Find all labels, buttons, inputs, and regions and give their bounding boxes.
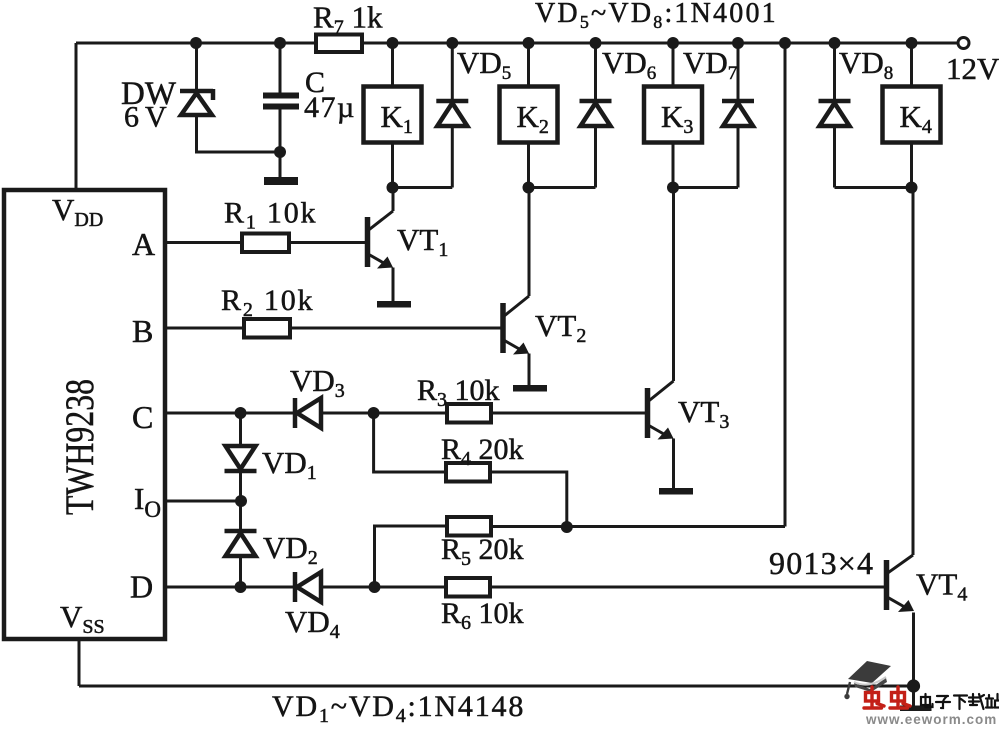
ground VT3: [659, 488, 693, 495]
wire R4 left to C line: [374, 413, 446, 472]
wire K2 junction to VD6: [529, 186, 596, 189]
wire K1 top: [391, 43, 394, 87]
transistor VT3: [648, 381, 674, 440]
node K2-VD6-VT2 junction: [523, 182, 535, 194]
ground VT1: [377, 301, 411, 308]
wire VSS down: [78, 639, 81, 686]
node rail-C junction: [274, 37, 286, 49]
node rail-VD8 junction: [829, 37, 841, 49]
resistor R3: [447, 404, 491, 423]
diode VD3: [295, 398, 321, 428]
wire pin B to R2: [165, 327, 244, 330]
wire bottom rail: [79, 685, 914, 688]
svg-text:R4 20k: R4 20k: [441, 433, 524, 470]
wire VD3 to R3: [321, 412, 447, 415]
wire VT4 emitter stub: [912, 686, 915, 706]
node R4-R5 junction: [561, 521, 573, 533]
resistor R2: [244, 319, 290, 338]
relay K1: [364, 87, 422, 143]
svg-text:D: D: [130, 569, 153, 605]
wire VD7 bottom: [737, 126, 740, 188]
wire VD8 top: [833, 43, 836, 101]
svg-text:R2 10k: R2 10k: [221, 284, 314, 321]
transistor VT4: [887, 555, 915, 612]
diode VD6: [580, 101, 612, 126]
wire K2 bottom: [527, 143, 530, 188]
node K4-VD8-VT4 junction: [906, 182, 918, 194]
capacitor C 47u: [263, 96, 299, 107]
wire VD8 bottom: [833, 126, 836, 188]
wire VD1 to IO: [239, 471, 242, 501]
wire K1 junction to VD5: [393, 186, 453, 189]
node C-R4 junction: [368, 407, 380, 419]
wire VT4 collector: [912, 188, 915, 556]
wire IO down to VD2: [239, 501, 242, 531]
node rail-K3 junction: [667, 37, 679, 49]
wire R4 right down to R5 line: [490, 472, 567, 527]
ground below C: [264, 177, 298, 185]
wire top supply rail left segment: [76, 42, 317, 45]
watermark site name glyphs: [921, 694, 933, 707]
wire VD6 bottom: [594, 126, 597, 188]
wire R5 left to D line: [375, 526, 448, 587]
resistor R4: [446, 463, 490, 482]
diode VD4: [295, 572, 321, 602]
relay K3: [644, 87, 702, 143]
diode VD1: [225, 446, 257, 471]
wire R3 to VT3 base: [491, 412, 646, 415]
svg-text:9013×4: 9013×4: [769, 545, 874, 581]
wire VT2 collector: [528, 188, 531, 297]
svg-text:R1 10k: R1 10k: [224, 197, 317, 234]
wire pin D to VD4: [165, 586, 295, 589]
12V input terminal: [958, 38, 969, 49]
svg-text:A: A: [132, 226, 155, 262]
wire VD5 top: [451, 43, 454, 101]
node K3-VD7-VT3 junction: [667, 182, 679, 194]
resistor R7: [316, 35, 362, 53]
relay K2: [500, 87, 558, 143]
wire C junction down to VD1: [239, 413, 242, 447]
transistor VT2: [503, 296, 529, 355]
resistor R5: [447, 517, 491, 536]
svg-text:47µ: 47µ: [304, 91, 356, 124]
wire VT3 collector: [672, 188, 675, 382]
wire VD5 bottom: [451, 126, 454, 188]
wire pin C to VD3: [165, 412, 295, 415]
wire K4 junction to VD8: [835, 186, 912, 189]
node rail-VD7 junction: [732, 37, 744, 49]
diode VD2: [225, 531, 257, 556]
wire K3 bottom: [672, 143, 675, 188]
node rail-K2 junction: [523, 37, 535, 49]
wire VT1 collector: [392, 188, 395, 212]
zener diode DW: [180, 89, 213, 115]
wire VT1 emitter: [392, 268, 395, 302]
node rail-K4 junction: [906, 37, 918, 49]
wire VDD to rail: [75, 43, 78, 192]
svg-text:12V: 12V: [946, 51, 999, 86]
node VT4 emitter junction: [907, 679, 920, 692]
wire K4 top: [910, 43, 913, 87]
node D-R5 junction: [369, 581, 381, 593]
wire K3 junction to VD7: [673, 186, 738, 189]
resistor R6: [446, 578, 490, 597]
wire C bottom: [279, 105, 282, 177]
wire R2 to VT2 base: [290, 327, 501, 330]
svg-text:R5 20k: R5 20k: [441, 533, 524, 570]
ground VT2: [513, 385, 547, 392]
svg-text:www.eeworm.com: www.eeworm.com: [865, 712, 997, 724]
node D-VD2 junction: [235, 581, 247, 593]
wire riser to rail: [784, 43, 787, 527]
node K1-VD5-VT1 junction: [387, 182, 399, 194]
svg-text:R7 1k: R7 1k: [313, 0, 383, 39]
resistor R1: [242, 234, 289, 253]
wire K3 top: [672, 43, 675, 87]
svg-text:TWH9238: TWH9238: [57, 379, 102, 515]
wire DW anode down and right to C: [197, 115, 281, 152]
wire K2 top: [527, 43, 530, 87]
svg-text:6V: 6V: [124, 101, 173, 134]
wire R1 to VT1 base: [289, 241, 365, 244]
wire DW branch: [195, 43, 198, 91]
diode VD8: [819, 101, 851, 126]
wire top supply rail right segment: [362, 42, 958, 45]
node rail-DW junction: [190, 37, 202, 49]
wire VD6 top: [594, 43, 597, 101]
wire R5 right to rail riser: [491, 525, 785, 528]
ground bar bottom right: [900, 706, 932, 712]
svg-text:C: C: [132, 399, 153, 435]
wire C top: [279, 43, 282, 93]
wire pin A to R1: [165, 241, 242, 244]
node C-DW junction: [274, 146, 286, 158]
wire VT4 emitter: [912, 613, 915, 687]
wire K4 bottom: [910, 143, 913, 188]
wire K1 bottom: [391, 143, 394, 188]
relay K4: [883, 87, 941, 143]
node rail-VD5 junction: [446, 37, 458, 49]
wire pin IO: [165, 500, 241, 503]
node C-VD1 junction: [235, 407, 247, 419]
node rail-VD6 junction: [590, 37, 602, 49]
node rail-riser junction: [779, 37, 791, 49]
node IO junction: [235, 495, 247, 507]
node rail-K1 junction: [387, 37, 399, 49]
op-amp U1 TWH9238 IC box: [4, 190, 165, 639]
svg-text:R3 10k: R3 10k: [417, 374, 500, 411]
wire VD4 to R6: [321, 586, 446, 589]
svg-text:B: B: [132, 313, 153, 349]
watermark graduation cap icon: [844, 661, 891, 699]
transistor VT1: [368, 211, 394, 269]
svg-text:R6 10k: R6 10k: [441, 597, 524, 634]
diode VD7: [722, 101, 754, 126]
watermark chongchong red logo text: [864, 687, 884, 708]
wire R6 to VT4 base: [490, 586, 885, 589]
wire VD7 top: [737, 43, 740, 101]
wire VD2 to D line: [239, 556, 242, 587]
wire VT3 emitter: [672, 439, 675, 489]
diode VD5: [436, 101, 468, 126]
wire VT2 emitter: [528, 354, 531, 386]
